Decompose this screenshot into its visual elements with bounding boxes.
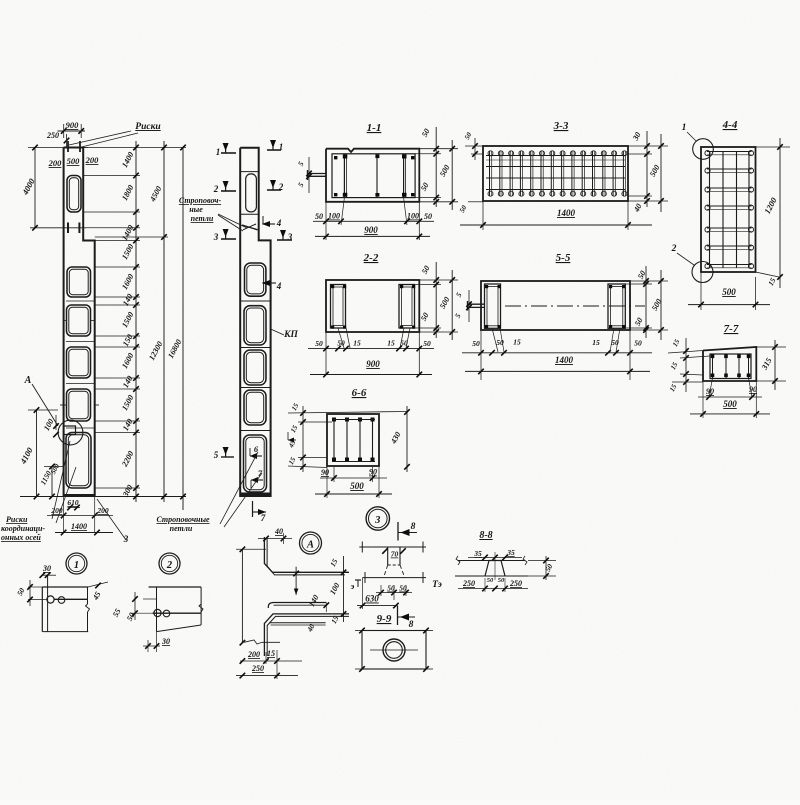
bottom edge extension line xyxy=(20,496,186,498)
section 1-1 bottom dims xyxy=(325,202,327,240)
section 6-6 small arrow left xyxy=(288,439,296,441)
svg-text:15: 15 xyxy=(353,339,361,348)
svg-text:900: 900 xyxy=(66,120,80,130)
detail 8-8 break marks xyxy=(456,556,460,565)
svg-text:1-1: 1-1 xyxy=(367,122,382,134)
section 2-2 dim 900 xyxy=(310,374,432,376)
section 2-2 outline xyxy=(326,280,419,332)
detail A left dim line xyxy=(241,549,243,642)
section 3-3 left dim xyxy=(465,145,483,147)
KP panel outline xyxy=(240,148,270,496)
left dim 1150 500 xyxy=(51,467,53,497)
section 5-5 loop dims xyxy=(468,290,470,322)
keyway box xyxy=(387,547,389,565)
svg-text:А: А xyxy=(24,375,32,386)
svg-text:50: 50 xyxy=(400,339,408,348)
section 3-3 bottom dim 1400 xyxy=(482,201,484,230)
section arrow 8 lower xyxy=(397,606,399,625)
section 7-7 left dims xyxy=(685,338,687,392)
svg-text:петли: петли xyxy=(191,214,214,223)
svg-text:8: 8 xyxy=(409,620,414,630)
svg-text:петли: петли xyxy=(170,524,193,533)
svg-text:Риски: Риски xyxy=(135,122,160,132)
keyway dashed sides xyxy=(384,565,388,578)
section 4-4 bottom dim 500 xyxy=(700,272,702,310)
detail 1 corner outline xyxy=(42,586,88,588)
svg-text:70: 70 xyxy=(391,550,399,559)
section 5-5 outline xyxy=(481,281,630,330)
KP opening 4 xyxy=(244,350,266,385)
detail 2 dim 30 bottom xyxy=(143,645,160,647)
detail A profile upper flange xyxy=(264,537,349,572)
svg-text:50: 50 xyxy=(498,577,505,584)
svg-text:1: 1 xyxy=(216,147,221,157)
dim chain 2 vertical 4500 12300 xyxy=(163,141,165,502)
section 5-5 dim 1400 xyxy=(465,370,650,372)
KP top slot opening xyxy=(246,174,257,212)
detail 1 rebar with circles xyxy=(54,598,88,600)
svg-text:2: 2 xyxy=(213,184,219,194)
svg-text:2: 2 xyxy=(671,244,677,254)
detail 8-8 band lines xyxy=(458,560,525,562)
top tick marks on panel top edge xyxy=(67,141,69,152)
section 9-9 plan rect xyxy=(362,631,426,670)
svg-text:50: 50 xyxy=(315,212,323,221)
svg-text:50: 50 xyxy=(496,338,504,347)
svg-text:1400: 1400 xyxy=(557,208,576,218)
svg-text:5: 5 xyxy=(214,450,219,460)
svg-text:50: 50 xyxy=(424,212,432,221)
svg-text:3: 3 xyxy=(374,515,380,526)
section 1-1 right dim lines xyxy=(419,148,458,150)
KP opening 2 xyxy=(245,263,266,296)
detail 8-8 trapezoid key xyxy=(485,561,505,577)
svg-text:250: 250 xyxy=(251,664,264,673)
KP opening 5 xyxy=(244,390,266,425)
svg-text:4: 4 xyxy=(276,218,282,228)
section 1-1 corner bars xyxy=(334,156,337,159)
section 6-6 bar top rail xyxy=(332,419,375,421)
detail 2 outline xyxy=(149,586,202,588)
svg-text:250: 250 xyxy=(509,579,522,588)
svg-text:4-4: 4-4 xyxy=(722,119,738,131)
section 9-9 circle xyxy=(383,639,405,661)
section 2-2 extension tails xyxy=(338,328,344,348)
detail A profile lower flange xyxy=(264,614,349,656)
detail marker circle 3 xyxy=(366,507,389,530)
section 5-5 centerline xyxy=(505,305,645,307)
svg-text:90: 90 xyxy=(369,468,377,477)
extension lines from elevation to dim chains xyxy=(83,175,140,177)
svg-text:3-3: 3-3 xyxy=(553,120,569,132)
section 6-6 outline xyxy=(327,414,379,466)
svg-text:8-8: 8-8 xyxy=(479,530,492,541)
svg-text:Тэ: Тэ xyxy=(432,580,442,590)
section 5-5 lifting loop left xyxy=(467,303,485,305)
svg-text:2-2: 2-2 xyxy=(363,252,379,264)
section 2-2 bottom dim row xyxy=(325,332,327,375)
svg-text:100: 100 xyxy=(328,212,340,221)
section 2-2 right stirrup box xyxy=(399,285,415,329)
section 3-3 outline xyxy=(483,146,628,201)
svg-text:35: 35 xyxy=(473,549,482,558)
elevation opening O2 xyxy=(67,267,91,297)
section 4-4 mesh verticals xyxy=(709,151,711,268)
svg-text:500: 500 xyxy=(67,156,81,166)
section 7-7 outline xyxy=(703,347,756,381)
svg-text:15: 15 xyxy=(267,649,275,658)
section 5-5 bottom dim row xyxy=(480,330,482,380)
svg-text:30: 30 xyxy=(161,637,170,646)
section 4-4 outline xyxy=(701,147,756,272)
svg-text:50: 50 xyxy=(472,339,480,348)
svg-text:15: 15 xyxy=(513,338,521,347)
leader from petli label to KP panel xyxy=(218,214,247,228)
svg-text:3: 3 xyxy=(123,534,129,544)
keyway detail bottom line xyxy=(363,577,427,579)
detail circle A on elevation xyxy=(58,420,83,445)
svg-text:610: 610 xyxy=(67,498,79,507)
KP opening 6 bottom xyxy=(244,435,267,492)
svg-text:50: 50 xyxy=(337,339,345,348)
detail marker circle 2 on section 4-4 xyxy=(692,262,713,283)
svg-text:5-5: 5-5 xyxy=(556,252,571,264)
svg-text:90: 90 xyxy=(749,385,757,394)
section 4-4 mesh horizontals with hooks xyxy=(707,151,752,153)
svg-text:50: 50 xyxy=(487,577,494,584)
svg-text:250: 250 xyxy=(462,579,475,588)
section 6-6 bottom dims xyxy=(333,466,335,482)
section 7-7 top extension to left xyxy=(668,351,703,354)
svg-text:1: 1 xyxy=(74,560,79,571)
svg-text:ные: ные xyxy=(189,205,203,214)
dim 900 above panel top xyxy=(58,130,86,132)
section 7-7 bars xyxy=(712,354,714,379)
svg-text:4: 4 xyxy=(276,281,282,291)
svg-text:координаци-: координаци- xyxy=(1,524,45,533)
panel elevation outline xyxy=(64,148,95,496)
section 7-7 bottom dims xyxy=(709,378,713,397)
leaders from petli bottom to KP openings xyxy=(220,452,258,524)
svg-text:1400: 1400 xyxy=(71,522,87,531)
detail A mid vertical leader xyxy=(295,567,297,595)
svg-text:50: 50 xyxy=(315,339,323,348)
svg-text:Строповоч-: Строповоч- xyxy=(179,196,222,205)
elevation opening O5 xyxy=(67,389,91,421)
svg-text:30: 30 xyxy=(42,564,51,573)
section 6-6 right dim 430 xyxy=(406,406,408,472)
svg-text:КП: КП xyxy=(283,330,298,340)
section 7-7 right dim 315 xyxy=(756,346,786,348)
section 2-2 right dims xyxy=(419,279,458,281)
section 5-5 right dims xyxy=(630,280,668,282)
svg-text:50: 50 xyxy=(634,339,642,348)
svg-text:6-6: 6-6 xyxy=(352,387,367,399)
svg-text:50: 50 xyxy=(611,338,619,347)
KP riski dashes xyxy=(242,225,258,230)
svg-text:500: 500 xyxy=(350,481,364,491)
svg-text:Риски: Риски xyxy=(6,515,28,524)
KP bottom solid band xyxy=(241,493,270,497)
svg-text:9-9: 9-9 xyxy=(377,613,392,625)
section 9-9 centerline xyxy=(370,649,418,651)
svg-text:200: 200 xyxy=(50,506,63,515)
leader lines from riski text to panel xyxy=(52,441,70,519)
svg-text:э: э xyxy=(350,581,355,591)
svg-text:8: 8 xyxy=(411,522,416,532)
svg-text:Строповочные: Строповочные xyxy=(156,515,210,524)
svg-text:90: 90 xyxy=(321,468,329,477)
svg-text:онных осей: онных осей xyxy=(1,533,41,542)
riski mark line at O3 xyxy=(64,320,67,322)
section 6-6 bars xyxy=(333,420,335,462)
elevation web lines between openings xyxy=(66,300,95,302)
detail A profile ledge tongue xyxy=(268,603,326,609)
detail 2 notch on right xyxy=(199,604,203,612)
detail 8-8 right dim 50 xyxy=(545,556,547,580)
svg-text:15: 15 xyxy=(592,338,600,347)
KP divider lines top xyxy=(240,171,259,173)
section 3-3 right dims xyxy=(628,145,668,147)
section 7-7 stirrup box xyxy=(710,354,751,379)
riski mark line upper (y228) xyxy=(30,227,86,229)
svg-text:900: 900 xyxy=(366,359,380,369)
section 5-5 extension tails xyxy=(492,328,498,352)
svg-text:А: А xyxy=(306,540,314,551)
section 3-3 mesh xyxy=(489,151,491,196)
section 2-2 left stirrup box xyxy=(331,285,346,329)
svg-text:900: 900 xyxy=(364,225,378,235)
section 1-1 loop dims 5 5 xyxy=(308,157,310,193)
left dim 4100 lower xyxy=(36,410,38,497)
elevation opening O4 xyxy=(67,347,91,378)
svg-text:500: 500 xyxy=(723,399,737,409)
detail 1 break squiggle xyxy=(86,604,90,612)
elevation opening O3 xyxy=(67,305,91,336)
svg-text:500: 500 xyxy=(722,287,736,297)
elevation opening O6 xyxy=(66,433,91,489)
edge notch detail at panel left edge xyxy=(64,426,76,435)
section 1-1 stirrups xyxy=(343,154,345,198)
svg-text:7-7: 7-7 xyxy=(724,323,739,335)
section 5-5 right stirrup xyxy=(608,284,625,328)
svg-text:90: 90 xyxy=(706,387,714,396)
svg-text:200: 200 xyxy=(85,155,100,165)
detail A marker circle xyxy=(300,532,322,554)
leader to 3 mark xyxy=(97,499,126,540)
svg-text:630: 630 xyxy=(365,594,379,604)
detail A right dim chain xyxy=(343,556,345,622)
svg-text:50: 50 xyxy=(423,339,431,348)
svg-text:2: 2 xyxy=(166,560,173,571)
elevation opening O1 xyxy=(67,176,81,213)
detail A bottom dims xyxy=(244,640,280,644)
detail 2 rebar with circles xyxy=(153,612,201,614)
section mark 7 below panel xyxy=(252,501,254,517)
section arrow 8 upper xyxy=(397,522,399,541)
KP web dividers between openings xyxy=(240,300,270,302)
detail 2 marker circle xyxy=(159,553,180,574)
svg-text:250: 250 xyxy=(46,131,59,140)
section 1-1 stirrup rect xyxy=(332,154,415,198)
dim chain 1 vertical at x136 xyxy=(135,141,137,502)
svg-text:15: 15 xyxy=(387,339,395,348)
detail marker circle 1 on section 4-4 xyxy=(693,139,714,160)
section 1-1 outline xyxy=(326,149,419,202)
section 6-6 top extension line xyxy=(288,412,408,414)
svg-text:200: 200 xyxy=(48,158,63,168)
dim chain 3 vertical 16800 xyxy=(182,148,184,511)
section 1-1 lifting loop left xyxy=(307,173,326,175)
keyway detail top line xyxy=(359,546,426,548)
top edge extension line xyxy=(83,147,186,149)
riski marks at O5 mid xyxy=(60,404,67,406)
svg-text:3: 3 xyxy=(213,232,219,242)
svg-text:40: 40 xyxy=(274,527,283,536)
section 4-4 right dim 1200 xyxy=(756,146,791,148)
left dim 4000 upper xyxy=(34,148,36,228)
svg-text:1: 1 xyxy=(682,123,687,133)
riski line extension at 227 xyxy=(86,227,140,229)
detail 1 dim 45 xyxy=(88,582,108,587)
section 6-6 left dims xyxy=(298,421,332,423)
svg-text:100: 100 xyxy=(407,212,419,221)
KP opening 3 xyxy=(244,306,266,345)
svg-text:200: 200 xyxy=(247,650,260,659)
svg-text:7: 7 xyxy=(261,513,266,523)
detail 1 dim 50 left xyxy=(28,586,42,588)
svg-text:1400: 1400 xyxy=(555,355,574,365)
section 5-5 left stirrup xyxy=(485,284,501,328)
detail 2 dims 55 50 xyxy=(130,612,153,614)
detail 1 marker circle xyxy=(66,553,87,574)
